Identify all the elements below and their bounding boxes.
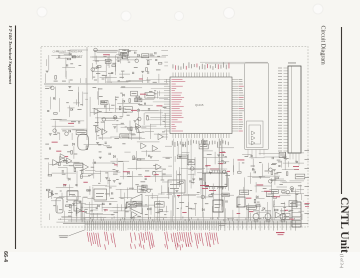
resistor R1005 [146, 68, 148, 72]
wire [115, 108, 126, 110]
value label [186, 205, 188, 208]
wire [293, 191, 299, 193]
op-amp U1032 [126, 202, 132, 208]
wire [151, 193, 153, 199]
IC U1021 [142, 185, 147, 190]
value label [109, 187, 112, 190]
op-amp U1025 [152, 145, 158, 151]
value label [121, 122, 124, 125]
value label [95, 60, 99, 63]
wire [301, 152, 305, 154]
QFP bottom pins [173, 134, 229, 139]
wire [159, 91, 161, 96]
wire [301, 214, 303, 220]
value label [121, 86, 125, 89]
wire [110, 136, 120, 138]
wire [122, 163, 124, 180]
signal name label [249, 210, 253, 213]
wire [51, 192, 53, 199]
wire [271, 178, 273, 190]
wire [71, 133, 73, 140]
capacitor C1027 [62, 171, 64, 172]
wire [227, 217, 234, 219]
value label [90, 210, 93, 213]
resistor R1021 [71, 151, 73, 155]
wire [232, 210, 234, 220]
op-amp U1014 [96, 126, 102, 132]
IC U1041 [239, 190, 248, 195]
transistor Q1017 [269, 180, 273, 184]
value label [50, 86, 52, 89]
value label [266, 195, 270, 198]
wire [102, 128, 104, 140]
value label [259, 217, 262, 220]
capacitor C1035 [126, 207, 127, 209]
value label [98, 144, 101, 147]
signal name label [290, 218, 294, 221]
wire [188, 169, 202, 171]
wire [79, 78, 81, 83]
signal name label [227, 170, 230, 173]
signal name label [140, 93, 146, 96]
wire [177, 144, 179, 155]
transistor Q1006 [53, 129, 57, 133]
ground [46, 71, 49, 73]
diode D1013 [68, 178, 70, 180]
wires from QFP left pins [141, 80, 164, 129]
wire [222, 194, 235, 196]
value label [197, 191, 200, 194]
wire [105, 76, 107, 83]
value label [116, 119, 118, 122]
value label [140, 190, 144, 193]
value label [96, 72, 100, 75]
value label [270, 179, 272, 182]
right margin label Circuit Diagram [320, 26, 326, 65]
value label [126, 56, 130, 59]
signal name label [238, 159, 245, 162]
wire [75, 99, 77, 105]
wire [145, 150, 147, 156]
QFP left pin signal names [172, 79, 186, 131]
wire [147, 77, 149, 83]
capacitor C1010 [155, 52, 156, 54]
wire [214, 152, 216, 165]
wire [122, 98, 124, 116]
resistor R1010 [54, 113, 58, 115]
wire [107, 77, 109, 84]
value label [145, 213, 148, 216]
capacitor C1044 [272, 157, 273, 159]
wire [96, 213, 98, 220]
value label [238, 203, 241, 206]
wire [122, 136, 142, 138]
resistor R1008 [147, 60, 149, 64]
transistor Q1033 [280, 214, 286, 223]
value label [102, 74, 105, 77]
wire [141, 150, 160, 152]
resistor R1031 [133, 156, 135, 160]
signal name label [56, 150, 61, 153]
wire [162, 55, 168, 57]
transistor label [253, 210, 259, 213]
wire [58, 167, 67, 169]
wire [46, 59, 48, 66]
wire [124, 204, 126, 218]
diode D1003 [96, 66, 98, 68]
capacitor C1047 [222, 154, 223, 156]
value label [127, 175, 132, 178]
wire [137, 141, 160, 143]
wire [97, 109, 99, 125]
wire [53, 119, 62, 121]
value label [146, 114, 148, 117]
capacitor C1032 [96, 207, 98, 208]
value label [225, 183, 227, 186]
QFP right pin labels [239, 79, 244, 131]
wire [93, 60, 113, 62]
wire [121, 218, 146, 220]
wire [115, 96, 117, 112]
ground [135, 126, 138, 128]
wire [161, 185, 163, 194]
resistor R1018 [101, 101, 105, 103]
wire [67, 189, 78, 191]
wire [70, 205, 77, 207]
wire [117, 81, 142, 83]
wire [128, 138, 145, 140]
value label [69, 164, 74, 167]
wire [86, 212, 103, 214]
wire [59, 161, 80, 163]
wire [200, 178, 202, 194]
wire [285, 204, 287, 206]
ground [99, 157, 102, 159]
wire [107, 57, 109, 67]
wire [247, 208, 249, 219]
value label [164, 213, 166, 216]
ground [259, 177, 262, 179]
wire [135, 204, 155, 206]
wire [90, 213, 115, 215]
wire [119, 197, 133, 199]
wire [61, 128, 87, 130]
wire [206, 158, 208, 167]
op-amp U1024 [141, 143, 147, 149]
value label [130, 216, 135, 219]
resonator box [74, 201, 81, 211]
value label [45, 87, 49, 90]
value label [271, 195, 275, 198]
value label [77, 108, 81, 111]
wire [56, 187, 74, 189]
schematic header CNTL UNIT [53, 49, 83, 59]
wire [142, 125, 157, 127]
wire [67, 107, 74, 109]
ground [96, 142, 99, 144]
wire [48, 162, 50, 174]
wire [105, 61, 107, 78]
wire [72, 129, 84, 131]
value label [118, 160, 123, 163]
wire [84, 143, 104, 145]
value label [153, 164, 156, 167]
resistor R1027 [48, 174, 52, 176]
diode D1007 [123, 100, 125, 102]
transistor Q1013 [286, 190, 290, 194]
wire [78, 92, 80, 107]
op-amp U1023 [67, 158, 73, 164]
value label [125, 126, 127, 129]
transistor Q1015 [191, 167, 195, 171]
ground [116, 171, 119, 173]
wire [279, 194, 291, 196]
resistor R1030 [51, 191, 53, 195]
relay box K1001 [213, 200, 223, 212]
wire [59, 52, 70, 54]
value label [125, 210, 128, 213]
wire [164, 65, 168, 67]
wire [105, 120, 115, 122]
capacitor C1005 [121, 56, 122, 58]
wire [59, 218, 61, 220]
wire [211, 169, 221, 171]
wire [269, 189, 286, 191]
bus wire [90, 56, 166, 58]
wire [252, 159, 254, 168]
value label [93, 86, 97, 89]
resistor R1014 [136, 98, 138, 102]
transistor Q1008 [113, 116, 117, 120]
IC Q1021 [205, 171, 227, 190]
wire [90, 112, 112, 114]
shield box [245, 63, 269, 150]
capacitor C1048 [226, 200, 227, 202]
diode D1008 [138, 109, 140, 111]
transistor Q1004 [65, 132, 69, 136]
value label [112, 162, 115, 165]
wire [61, 193, 63, 199]
wire [274, 178, 284, 180]
capacitor C1003 [132, 72, 134, 73]
wire [164, 61, 168, 63]
wire [194, 157, 196, 175]
value label [105, 172, 108, 175]
capacitor C1021 [149, 155, 150, 157]
wire [120, 56, 122, 63]
capacitor C1036 [85, 211, 87, 212]
wire [54, 121, 56, 135]
wire [70, 49, 88, 51]
wire [267, 163, 269, 174]
wire [218, 147, 234, 149]
wire [256, 198, 265, 200]
capacitor C1029 [105, 142, 107, 143]
capacitor C1037 [288, 210, 290, 211]
IC U1022 [74, 163, 83, 168]
IC U1001 [105, 59, 111, 63]
wire [295, 193, 304, 195]
value label [189, 160, 192, 163]
wire [158, 193, 165, 195]
resistor R1009 [158, 63, 162, 65]
value label [45, 157, 50, 160]
wire [109, 178, 111, 197]
wire [181, 167, 205, 169]
wire [51, 54, 75, 56]
wire [110, 160, 129, 162]
value label [290, 209, 293, 212]
wire [112, 207, 119, 209]
wire [149, 124, 151, 139]
value label [256, 203, 261, 206]
value label [265, 170, 269, 173]
microprocessor U Q1015 [170, 77, 232, 134]
wire [45, 85, 53, 87]
value label [122, 49, 126, 52]
value label [111, 104, 115, 107]
wire [104, 112, 127, 114]
wire [178, 172, 180, 188]
wire bundle from QFP bottom [173, 139, 222, 218]
transistor Q1031 [253, 214, 259, 223]
capacitor C1022 [112, 192, 113, 194]
value label [93, 124, 98, 127]
value label [154, 92, 157, 95]
wire [93, 49, 117, 51]
wire [107, 172, 109, 184]
value label [97, 134, 99, 137]
bus wire [44, 83, 168, 85]
wire [101, 203, 103, 212]
wire [178, 167, 180, 183]
value label [250, 189, 253, 192]
wire [282, 181, 301, 183]
capacitor C1002 [58, 56, 60, 57]
wire [262, 164, 264, 178]
resistor R1039 [271, 171, 273, 175]
value label [62, 80, 66, 83]
wire [49, 214, 51, 220]
value label [120, 115, 123, 118]
IC U1037 [295, 174, 305, 179]
wire [282, 192, 299, 194]
signal name label [246, 197, 251, 200]
value label [101, 121, 105, 124]
signal name label [65, 155, 68, 158]
wire [282, 168, 297, 170]
capacitor C1034 [109, 204, 111, 205]
wire [161, 49, 168, 51]
value label [224, 193, 227, 196]
wire [228, 178, 230, 191]
value label [99, 137, 101, 140]
IC U1011 [101, 101, 108, 105]
ground [113, 127, 116, 129]
transistor Q1032 [265, 214, 271, 223]
resistor R1037 [254, 199, 256, 203]
transistor Q1002 [94, 48, 98, 52]
value label [114, 211, 119, 214]
value label [280, 183, 283, 186]
IC Q1021 labels [209, 169, 219, 191]
IC U1016 [120, 134, 129, 138]
svg-text:CNTL UNIT: CNTL UNIT [53, 49, 67, 53]
wire [92, 162, 114, 164]
wire [108, 104, 110, 111]
value label [277, 159, 281, 162]
diode D1016 [263, 207, 265, 209]
value label [252, 169, 255, 172]
IC U1044 [177, 155, 187, 159]
capacitor C1001 [67, 64, 68, 66]
wire [56, 57, 71, 59]
value label [282, 155, 286, 158]
wire [142, 74, 144, 83]
signal name label [257, 184, 264, 187]
wire [211, 193, 230, 195]
wire [297, 188, 305, 190]
wire [255, 182, 257, 192]
op-amp U1008 [158, 134, 164, 140]
capacitor C1023 [142, 186, 144, 187]
resistor R1025 [59, 162, 61, 166]
resistor R1044 [238, 172, 242, 174]
ground [113, 181, 116, 183]
wire [277, 186, 288, 188]
diode D1009 [64, 184, 66, 186]
resistor R1016 [137, 129, 139, 133]
value label [163, 120, 166, 123]
value label [120, 76, 125, 79]
wire [84, 207, 96, 209]
capacitor C1006 [147, 72, 149, 73]
capacitor C1017 [105, 105, 106, 107]
wire [166, 206, 168, 213]
wire [295, 194, 297, 208]
wire [120, 204, 122, 211]
signal name label [264, 190, 271, 193]
wire [295, 189, 297, 206]
value label [115, 96, 119, 99]
value label [147, 63, 150, 66]
IC U1028 [155, 202, 165, 208]
wire [197, 196, 214, 198]
value label [142, 131, 145, 134]
bottom bus wire [62, 217, 301, 219]
ground [127, 51, 130, 53]
wire [143, 113, 145, 125]
wire [280, 208, 282, 215]
wire [290, 180, 305, 182]
wire [232, 165, 234, 172]
resistor R1015 [131, 127, 133, 131]
wire [120, 133, 135, 135]
IC U1033 [127, 202, 136, 207]
svg-text:(1 of 3¬): (1 of 3¬) [340, 254, 345, 269]
wire [146, 59, 152, 61]
wire [94, 50, 118, 52]
drop wires to J1001 [65, 192, 285, 222]
value label [278, 161, 282, 164]
value label [138, 103, 142, 106]
resistor R1004 [97, 66, 101, 68]
IC U1035 [289, 201, 297, 207]
wire [97, 91, 99, 99]
wire [273, 206, 298, 208]
value label [150, 54, 155, 57]
value label [94, 79, 97, 82]
